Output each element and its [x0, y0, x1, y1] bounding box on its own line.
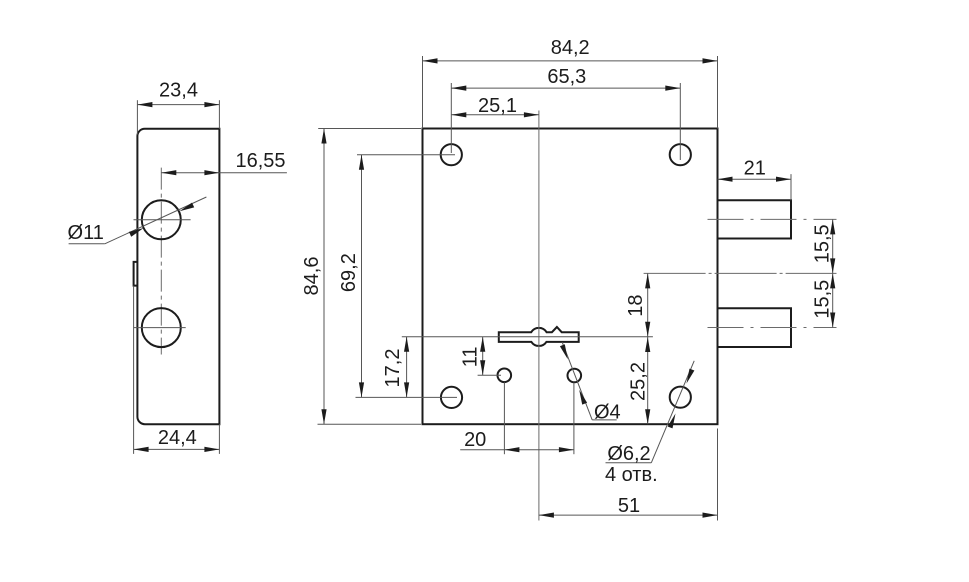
dimension 18 [625, 273, 650, 336]
dimension 23,4 [137, 79, 219, 134]
hole O6,2 bottom-left [441, 387, 462, 408]
label O6,2 4 holes with leader [605, 361, 694, 486]
svg-text:Ø6,2: Ø6,2 [607, 443, 650, 465]
dimension 17,2 [382, 337, 409, 398]
label O11 with leader [68, 197, 207, 244]
dimension 84,6 [301, 129, 421, 425]
svg-text:18: 18 [625, 294, 647, 316]
dimension 24,4 [134, 286, 220, 454]
dimension 51 [539, 429, 718, 521]
svg-text:24,4: 24,4 [158, 427, 197, 449]
hole O4 right [568, 369, 582, 383]
top tab (bolt) [718, 200, 792, 238]
horizontal centerline of plate [644, 272, 837, 274]
dimension 15,5 lower [812, 273, 836, 327]
svg-text:65,3: 65,3 [547, 66, 586, 88]
svg-text:84,2: 84,2 [551, 37, 590, 59]
dimension 84,2 [423, 37, 718, 128]
svg-text:25,1: 25,1 [478, 95, 517, 117]
svg-text:84,6: 84,6 [301, 257, 323, 296]
hole O6,2 bottom-right [670, 387, 691, 408]
svg-text:23,4: 23,4 [159, 79, 198, 101]
svg-text:17,2: 17,2 [382, 349, 404, 388]
dimension 65,3 [451, 66, 680, 160]
svg-text:51: 51 [618, 495, 640, 517]
hole O4 left [498, 369, 512, 383]
svg-text:25,2: 25,2 [628, 362, 650, 401]
svg-text:Ø11: Ø11 [68, 222, 104, 244]
dimension 16,55 [161, 150, 287, 175]
dimension 20 [460, 382, 574, 454]
dimension 69,2 [338, 155, 457, 398]
svg-text:11: 11 [460, 347, 482, 368]
hole O11 top [142, 200, 181, 239]
dimension 21 [718, 158, 792, 201]
svg-text:4 отв.: 4 отв. [605, 464, 658, 486]
svg-text:15,5: 15,5 [812, 224, 834, 263]
svg-text:15,5: 15,5 [812, 280, 834, 319]
svg-text:21: 21 [744, 158, 766, 180]
bottom tab (bolt) [718, 308, 792, 347]
hole O6,2 top-left [441, 144, 462, 165]
main view plate outline [423, 129, 718, 425]
top tab centerline [708, 218, 837, 220]
bottom tab centerline [708, 327, 837, 329]
keyhole horizontal line [402, 336, 653, 338]
left view vertical centerline [160, 168, 162, 355]
dimension 15,5 upper [812, 219, 836, 273]
svg-text:69,2: 69,2 [338, 253, 360, 292]
dimension 11 [460, 337, 502, 376]
label O4 with leader [560, 342, 621, 423]
dimension 25,2 [628, 337, 651, 424]
hole O11 bottom center mark [134, 327, 186, 329]
hole O11 top center mark [134, 219, 191, 221]
keyhole slot with center bump and notch [499, 327, 579, 346]
main vertical centerline [538, 111, 540, 521]
hole O11 bottom [142, 308, 181, 347]
svg-text:Ø4: Ø4 [594, 402, 621, 424]
left view plate outline [137, 129, 219, 424]
dimension 25,1 [451, 95, 539, 117]
svg-text:16,55: 16,55 [235, 150, 285, 172]
left view notch on left edge [134, 262, 138, 286]
hole O6,2 top-right [670, 144, 691, 165]
svg-text:20: 20 [464, 429, 486, 451]
